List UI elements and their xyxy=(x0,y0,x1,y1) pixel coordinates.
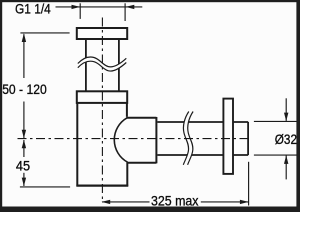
dim G1 1/4 extension line right xyxy=(124,3,126,21)
dim 325 line right xyxy=(201,201,249,203)
dim 325 extension line right xyxy=(248,162,250,206)
dim G1 1/4 leader line xyxy=(56,6,143,8)
outlet socket bottom xyxy=(127,162,156,164)
trap body right wall upper xyxy=(126,103,128,117)
dim 50-120 line upper xyxy=(23,34,25,78)
inlet tube wall right xyxy=(118,39,120,91)
outlet pipe end face xyxy=(247,122,249,155)
outlet socket top xyxy=(126,117,156,119)
arrowheads xyxy=(22,5,289,204)
dim 325 line left xyxy=(102,201,150,203)
dim diam32 extension line bottom xyxy=(254,154,297,156)
dim 50-120 line lower xyxy=(23,102,25,139)
arrow G1 1/4 left-pointing xyxy=(126,5,135,9)
arrow 50-120 down xyxy=(22,130,26,139)
body-socket intersection arc xyxy=(114,118,127,162)
arrow 45 up xyxy=(22,140,26,149)
arrow 45 down xyxy=(22,178,26,187)
outlet wall flange xyxy=(223,99,233,174)
inlet vertical centerline xyxy=(101,18,103,202)
dim 45 extension line bottom xyxy=(20,186,70,188)
arrow 325 left xyxy=(102,200,111,204)
inlet tube break band xyxy=(78,57,127,71)
trap body right wall lower xyxy=(126,163,128,187)
svg-text:325 max: 325 max xyxy=(151,193,199,208)
trap body left wall xyxy=(76,103,78,186)
inlet tube break wave upper xyxy=(78,57,127,67)
coupling nut xyxy=(77,91,127,103)
arrow diam32 up xyxy=(284,155,288,164)
outlet pipe bottom xyxy=(157,154,248,156)
svg-text:Ø32: Ø32 xyxy=(275,132,297,147)
arrow G1 1/4 right-pointing xyxy=(72,5,81,9)
centerlines xyxy=(18,18,251,202)
dim G1 1/4 extension line left xyxy=(79,3,81,19)
inlet tube wall left xyxy=(85,39,87,91)
dim 50-120 extension line top xyxy=(20,32,69,34)
svg-text:G1 1/4: G1 1/4 xyxy=(15,2,51,17)
outlet pipe break wave left xyxy=(183,112,189,165)
arrow diam32 down xyxy=(284,113,288,122)
dim diam32 line lower xyxy=(285,156,287,180)
dim diam32 extension line top xyxy=(254,120,297,122)
outlet pipe break wave right xyxy=(188,112,194,165)
outlet socket end face xyxy=(155,117,157,163)
inlet tube break wave lower xyxy=(78,61,127,71)
dim 45 line lower xyxy=(23,173,25,186)
dim diam32 line upper xyxy=(285,98,287,121)
dim 45 line upper xyxy=(23,140,25,157)
arrow 325 right xyxy=(240,200,249,204)
outlet horizontal centerline xyxy=(18,138,251,140)
arrow 50-120 up xyxy=(22,33,26,42)
svg-text:45: 45 xyxy=(16,158,30,173)
inlet flange xyxy=(77,28,127,39)
trap body bottom xyxy=(76,185,128,187)
outlet pipe top xyxy=(157,121,248,123)
outlet pipe break band xyxy=(183,112,193,165)
svg-text:50 - 120: 50 - 120 xyxy=(2,82,47,97)
dimensions xyxy=(20,3,297,205)
